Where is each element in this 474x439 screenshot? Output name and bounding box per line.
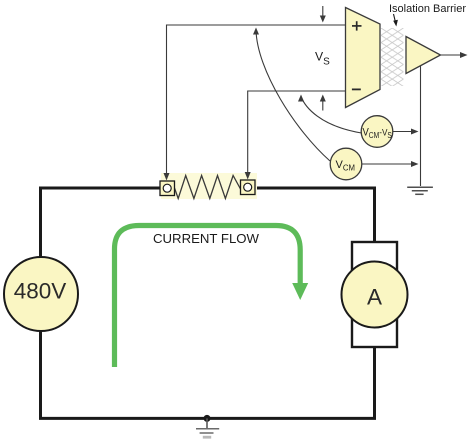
wire: + sense wire to op-amp xyxy=(167,25,346,177)
arrow from label to barrier xyxy=(393,14,398,27)
Vs marker down arrow xyxy=(320,6,326,23)
svg-text:VS: VS xyxy=(315,49,330,67)
op-amp U1 (input amplifier) xyxy=(346,8,381,108)
wire: VCM-VS to ground line with arrow xyxy=(393,129,419,135)
arrowhead into left terminal xyxy=(164,173,170,181)
terminal (shunt right) xyxy=(241,180,256,195)
wire: VCM to ground line with arrow xyxy=(362,161,419,167)
svg-text:A: A xyxy=(367,285,382,310)
junction node on bottom wire xyxy=(204,415,211,422)
isolation barrier hatch xyxy=(381,28,404,86)
shunt resistor R_shunt xyxy=(161,173,257,199)
node VCM-VS xyxy=(361,116,393,148)
ammeter A xyxy=(342,242,408,347)
wire: - sense wire to op-amp xyxy=(248,91,346,176)
zigzag xyxy=(175,176,241,199)
Vs marker up arrow xyxy=(320,95,326,111)
voltage source 480V xyxy=(4,257,78,331)
ground (bottom) xyxy=(196,418,219,438)
node VCM xyxy=(330,148,362,180)
svg-text:CURRENT FLOW: CURRENT FLOW xyxy=(153,231,260,246)
wire: main loop right vertical xyxy=(373,188,376,418)
node VCM curve to + wire xyxy=(253,28,330,162)
wire: output with arrow xyxy=(441,52,468,58)
wire: buffer ground line xyxy=(420,66,422,187)
wire: main loop top left segment xyxy=(39,187,161,190)
wire: main loop bottom xyxy=(39,417,376,420)
current flow arrow (green) xyxy=(115,226,309,368)
wire: main loop left vertical xyxy=(39,188,42,418)
arrowhead into right terminal xyxy=(245,172,251,180)
svg-text:Isolation Barrier: Isolation Barrier xyxy=(389,3,466,15)
output buffer amplifier xyxy=(406,37,441,74)
wire: main loop top right segment xyxy=(254,187,376,190)
terminal (shunt left) xyxy=(160,181,175,196)
svg-text:480V: 480V xyxy=(14,279,67,304)
node VCM-VS curve to - wire xyxy=(298,95,362,134)
ground (right) xyxy=(407,187,433,194)
